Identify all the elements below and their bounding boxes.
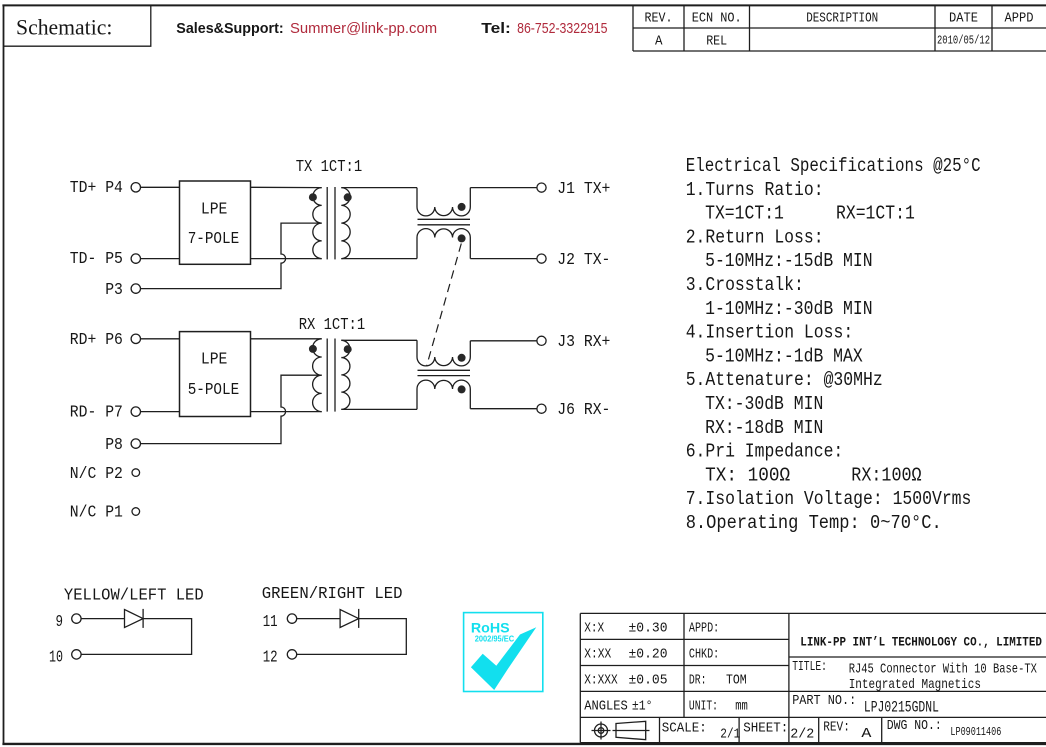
svg-text:REV.: REV.: [645, 11, 673, 27]
svg-text:2002/95/EC: 2002/95/EC: [475, 634, 515, 644]
pin circle P4: [131, 183, 140, 192]
svg-text:12: 12: [263, 649, 278, 668]
wire P8 to T2 center tap with hop over P7 wire: [141, 375, 322, 443]
wire 11 to diode D2: [297, 618, 340, 620]
svg-text:N/C P2: N/C P2: [70, 465, 123, 484]
T1 primary phase dot: [309, 193, 317, 201]
diode D2 green LED: [340, 610, 359, 628]
pin circle 11: [287, 614, 296, 623]
svg-text:Integrated Magnetics: Integrated Magnetics: [849, 677, 981, 693]
svg-text:Tel:: Tel:: [481, 20, 511, 37]
wire D2 loop to pin 12: [297, 619, 407, 655]
svg-text:4.Insertion Loss:: 4.Insertion Loss:: [686, 322, 854, 344]
wire T2 secondary top to choke L2: [341, 339, 417, 341]
svg-text:PART NO.:: PART NO.:: [792, 693, 856, 709]
wire L2 to J3: [470, 340, 537, 342]
svg-text:TD- P5: TD- P5: [70, 250, 123, 269]
L1 core lines: [418, 218, 471, 220]
dashed link line between chokes: [427, 244, 462, 367]
svg-text:TX=1CT:1: TX=1CT:1: [705, 203, 784, 225]
svg-text:Summer@link-pp.com: Summer@link-pp.com: [290, 20, 437, 37]
L1 bottom phase dot: [458, 234, 466, 242]
choke L1 top winding: [417, 188, 470, 216]
svg-text:LINK-PP INT’L TECHNOLOGY CO.,: LINK-PP INT’L TECHNOLOGY CO., LIMITED: [800, 635, 1042, 650]
terminal circle J2: [537, 254, 546, 263]
svg-text:A: A: [655, 33, 663, 49]
svg-text:TX:-30dB MIN: TX:-30dB MIN: [705, 393, 823, 415]
svg-text:RX:-18dB MIN: RX:-18dB MIN: [705, 417, 823, 439]
wire L1 to J2: [470, 258, 537, 260]
diode D1 yellow LED: [125, 610, 144, 628]
wire U2 to T2 primary bottom: [251, 411, 322, 413]
svg-text:6.Pri Impedance:: 6.Pri Impedance:: [686, 441, 844, 463]
svg-text:N/C P1: N/C P1: [70, 504, 123, 523]
svg-text:mm: mm: [735, 698, 748, 714]
svg-text:7.Isolation Voltage: 1500Vrms: 7.Isolation Voltage: 1500Vrms: [686, 488, 972, 510]
T2 primary phase dot: [309, 345, 317, 353]
svg-text:DATE: DATE: [949, 11, 978, 27]
filter U2 LPE 5-POLE box: [180, 332, 251, 417]
svg-text:LP09011406: LP09011406: [950, 726, 1001, 739]
svg-text:5-POLE: 5-POLE: [188, 381, 240, 400]
svg-text:86-752-3322915: 86-752-3322915: [517, 20, 607, 37]
pin circle P7: [131, 407, 140, 416]
wire U1 to T1 primary top: [251, 186, 322, 188]
frame top border: [2, 4, 1046, 6]
svg-text:TOM: TOM: [726, 672, 747, 688]
svg-text:P8: P8: [105, 436, 123, 455]
svg-text:9: 9: [56, 613, 64, 632]
T2 core lines: [326, 339, 328, 412]
transformer T2 primary winding: [313, 339, 322, 412]
svg-text:2.Return Loss:: 2.Return Loss:: [686, 226, 824, 248]
svg-text:1.Turns Ratio:: 1.Turns Ratio:: [686, 179, 824, 201]
svg-text:Electrical Specifications @25°: Electrical Specifications @25°C: [686, 155, 981, 177]
svg-text:±0.30: ±0.30: [629, 620, 668, 636]
svg-text:8.Operating Temp: 0~70°C.: 8.Operating Temp: 0~70°C.: [686, 512, 942, 534]
pin circle 10: [72, 650, 81, 659]
title block grid: [580, 613, 1046, 742]
pin circle P5: [131, 254, 140, 263]
svg-text:RD+ P6: RD+ P6: [70, 331, 123, 350]
wire T1 secondary top to choke L1: [341, 187, 417, 189]
svg-text:LPJ0215GDNL: LPJ0215GDNL: [864, 698, 939, 716]
choke L1 bottom winding: [417, 229, 470, 259]
revision table grid: [633, 5, 1046, 51]
svg-text:2010/05/12: 2010/05/12: [937, 35, 990, 48]
svg-text:ANGLES: ANGLES: [584, 698, 628, 714]
svg-text:LPE: LPE: [201, 200, 228, 219]
svg-text:DWG NO.:: DWG NO.:: [887, 718, 942, 734]
projection symbol cone: [616, 721, 646, 739]
transformer T1 primary winding: [313, 188, 322, 259]
svg-text:DR:: DR:: [689, 672, 707, 688]
svg-text:SCALE:: SCALE:: [662, 721, 707, 737]
terminal circle J6: [537, 404, 546, 413]
pin circle 9: [72, 614, 81, 623]
frame left border: [3, 5, 5, 745]
svg-text:J1 TX+: J1 TX+: [557, 180, 610, 199]
svg-text:X:XX: X:XX: [584, 646, 611, 662]
svg-text:TX 1CT:1: TX 1CT:1: [296, 158, 363, 177]
svg-text:RX=1CT:1: RX=1CT:1: [836, 203, 915, 225]
frame bottom border: [2, 743, 1046, 745]
wire U1 to T1 primary bottom: [251, 258, 322, 260]
wire L1 to J1: [470, 187, 537, 189]
wire T2 secondary bottom to choke L2: [341, 408, 417, 410]
wire P5 to LPE: [141, 258, 180, 260]
svg-text:LPE: LPE: [201, 351, 228, 370]
pin circle P2: [132, 469, 140, 477]
svg-text:J3 RX+: J3 RX+: [557, 333, 610, 352]
svg-text:YELLOW/LEFT LED: YELLOW/LEFT LED: [64, 586, 204, 605]
wire P6 to LPE: [141, 338, 180, 340]
svg-text:±0.20: ±0.20: [629, 646, 668, 662]
wire P3 to T1 center tap with hop over P5 wire: [141, 223, 322, 289]
svg-text:5-10MHz:-15dB MIN: 5-10MHz:-15dB MIN: [705, 250, 873, 272]
svg-text:RJ45 Connector With 10 Base-TX: RJ45 Connector With 10 Base-TX: [849, 661, 1038, 677]
T1 core lines: [326, 187, 328, 259]
projection symbol circle: [592, 722, 611, 740]
wire D1 loop to pin 10: [81, 619, 192, 655]
svg-text:5.Attenature: @30MHz: 5.Attenature: @30MHz: [686, 369, 883, 391]
wire 9 to diode D1: [81, 618, 124, 620]
svg-text:ECN NO.: ECN NO.: [692, 11, 742, 27]
svg-text:J6 RX-: J6 RX-: [557, 401, 610, 420]
terminal circle J3: [537, 336, 546, 345]
filter U1 LPE 7-POLE box: [180, 181, 251, 264]
svg-text:RX:100Ω: RX:100Ω: [851, 464, 921, 486]
svg-text:11: 11: [263, 613, 278, 632]
svg-text:X:X: X:X: [584, 620, 604, 636]
svg-text:5-10MHz:-1dB MAX: 5-10MHz:-1dB MAX: [705, 345, 863, 367]
svg-text:Schematic:: Schematic:: [16, 14, 112, 39]
T1 secondary phase dot: [344, 193, 352, 201]
wire T1 secondary bottom to choke L1: [341, 258, 417, 260]
RoHS logo box: [464, 613, 543, 692]
svg-text:TD+ P4: TD+ P4: [70, 179, 123, 198]
pin circle 12: [287, 650, 296, 659]
wire L2 to J6: [470, 408, 537, 410]
svg-text:UNIT:: UNIT:: [689, 698, 718, 714]
svg-text:TX: 100Ω: TX: 100Ω: [705, 464, 790, 486]
terminal circle J1: [537, 183, 546, 192]
svg-text:7-POLE: 7-POLE: [188, 230, 240, 249]
L2 bottom phase dot: [458, 385, 466, 393]
svg-text:DESCRIPTION: DESCRIPTION: [806, 11, 878, 27]
svg-text:GREEN/RIGHT LED: GREEN/RIGHT LED: [262, 585, 403, 604]
svg-text:APPD: APPD: [1005, 11, 1034, 27]
svg-text:RX 1CT:1: RX 1CT:1: [299, 316, 366, 335]
schematic title box: [4, 5, 151, 46]
svg-text:SHEET:: SHEET:: [743, 721, 788, 737]
pin circle P6: [131, 334, 140, 343]
svg-text:Sales&Support:: Sales&Support:: [176, 20, 283, 37]
svg-text:APPD:: APPD:: [689, 620, 719, 636]
pin circle P3: [131, 284, 140, 293]
choke L2 top winding: [417, 340, 470, 366]
wire P4 to LPE: [141, 186, 180, 188]
svg-text:±1°: ±1°: [632, 698, 653, 714]
L2 top phase dot: [458, 354, 466, 362]
svg-text:±0.05: ±0.05: [629, 672, 668, 688]
wire U2 to T2 primary top: [251, 338, 322, 340]
svg-text:REV:: REV:: [823, 720, 850, 736]
L1 top phase dot: [458, 203, 466, 211]
transformer T1 secondary winding: [341, 188, 350, 259]
svg-text:2/1: 2/1: [720, 727, 740, 743]
svg-text:J2 TX-: J2 TX-: [557, 251, 610, 270]
pin circle P1: [132, 508, 140, 516]
transformer T2 secondary winding: [341, 340, 350, 409]
pin circle P8: [131, 439, 140, 448]
svg-text:10: 10: [49, 649, 63, 668]
RoHS checkmark: [471, 627, 536, 690]
svg-text:2/2: 2/2: [790, 727, 814, 743]
L2 core lines: [418, 369, 471, 371]
svg-text:X:XXX: X:XXX: [584, 672, 618, 688]
T2 secondary phase dot: [344, 345, 352, 353]
wire P7 to LPE: [141, 411, 180, 413]
svg-text:TITLE:: TITLE:: [792, 659, 827, 675]
svg-text:A: A: [861, 726, 872, 742]
svg-text:3.Crosstalk:: 3.Crosstalk:: [686, 274, 804, 296]
svg-text:P3: P3: [105, 281, 123, 300]
svg-text:CHKD:: CHKD:: [689, 646, 719, 662]
svg-text:1-10MHz:-30dB MIN: 1-10MHz:-30dB MIN: [705, 298, 873, 320]
svg-text:REL: REL: [706, 33, 727, 49]
choke L2 bottom winding: [417, 380, 470, 409]
svg-text:RD- P7: RD- P7: [70, 404, 123, 423]
